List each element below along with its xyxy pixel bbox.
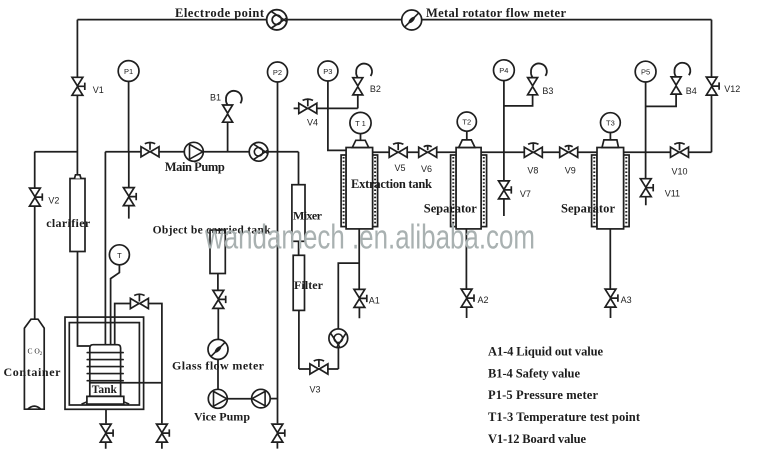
wire object tank to valve: [217, 274, 219, 291]
valve V8: [524, 143, 542, 157]
svg-text:T 1: T 1: [355, 119, 366, 128]
extraction tank cap: [352, 140, 368, 147]
wire vice pump to gear pump: [227, 398, 251, 400]
electrode point fitting: [267, 10, 287, 30]
svg-text:P4: P4: [499, 66, 508, 75]
valve V9: [560, 146, 578, 158]
svg-text:B2: B2: [370, 84, 381, 94]
svg-text:V10: V10: [672, 167, 688, 177]
safety valve B2: [353, 64, 372, 95]
wire B3 drop: [504, 95, 533, 106]
metal rotator flow meter: [402, 10, 422, 30]
wire temperature probe: [111, 265, 120, 317]
wire P3 column to tank inlet: [328, 81, 346, 150]
separator T3 cap: [602, 140, 619, 148]
wire top manifold left: [77, 19, 266, 21]
svg-text:A3: A3: [621, 295, 632, 305]
extraction tank body: [346, 148, 373, 229]
pump gear pump beside vice pump: [252, 389, 271, 408]
wire P5 column: [645, 82, 647, 205]
wire T3 stem: [609, 133, 611, 141]
CO2 container: [24, 319, 44, 409]
separator T2 jacket right: [481, 155, 487, 227]
pump circulating: [329, 329, 348, 348]
wire separator T2 bottom: [465, 229, 467, 318]
svg-text:P2: P2: [273, 68, 282, 77]
clarifier vessel: [70, 175, 85, 252]
wire tank right tube inside bath: [114, 317, 116, 345]
safety valve B3: [528, 63, 547, 94]
valve object tank outlet: [213, 290, 226, 308]
wire bath feed column: [104, 152, 106, 317]
svg-text:V6: V6: [421, 164, 432, 174]
gauge T bath: [109, 245, 129, 265]
svg-text:Electrode point: Electrode point: [175, 6, 265, 20]
wire clarifier to coil: [77, 252, 79, 318]
safety valve B1: [223, 91, 242, 122]
filter vessel: [293, 255, 304, 310]
wire V4 run: [294, 107, 358, 109]
wire P1 column: [128, 81, 130, 218]
valve P1 drain: [123, 188, 136, 206]
svg-text:Container: Container: [4, 365, 62, 379]
separator T2 body: [456, 148, 481, 229]
wire top manifold right: [422, 19, 712, 21]
svg-text:Separator: Separator: [424, 202, 477, 216]
wire top manifold middle: [287, 19, 402, 21]
svg-text:A2: A2: [478, 295, 489, 305]
wire V2 column: [34, 152, 36, 320]
gauge P5: [635, 61, 656, 82]
safety valve B4: [671, 63, 690, 94]
valve V1: [72, 77, 85, 95]
svg-text:P1: P1: [124, 67, 133, 76]
extraction tank jacket left: [341, 155, 346, 227]
gauge P4: [494, 60, 515, 81]
valve bath drain left: [100, 424, 113, 442]
separator T2 cap: [459, 140, 475, 148]
wire right riser: [711, 20, 713, 153]
wire T2 stem: [466, 131, 468, 140]
wire V3 to circulating pump: [337, 348, 339, 369]
svg-text:T1-3 Temperature test point: T1-3 Temperature test point: [488, 410, 641, 424]
wire P2 column: [276, 82, 278, 449]
svg-text:V1-12 Board value: V1-12 Board value: [488, 432, 586, 446]
valve A2: [461, 289, 474, 307]
svg-text:T3: T3: [606, 119, 615, 128]
svg-text:B1-4 Safety value: B1-4 Safety value: [488, 366, 580, 380]
valve V3: [310, 360, 328, 374]
wire temperature probe inside bath: [110, 317, 112, 345]
wire extraction tank bottom: [358, 229, 360, 318]
glass flow meter: [208, 339, 228, 359]
svg-text:V12: V12: [724, 84, 740, 94]
valve A3: [605, 289, 618, 307]
valve A1: [354, 289, 367, 307]
wire B4 drop: [646, 93, 677, 106]
svg-text:V11: V11: [665, 189, 680, 199]
wire B1 drop: [227, 122, 229, 151]
svg-text:Separator: Separator: [561, 201, 615, 215]
gauge P3: [318, 61, 338, 81]
wire filter to V3: [298, 310, 300, 369]
svg-text:Tank: Tank: [92, 384, 118, 396]
wire separator T2 to separator T3: [481, 151, 597, 153]
wire valve to glass flow meter: [217, 309, 219, 340]
svg-text:V4: V4: [307, 117, 318, 127]
separator T3 body: [597, 148, 624, 229]
svg-text:V3: V3: [310, 385, 321, 395]
svg-text:T2: T2: [462, 118, 471, 127]
gauge P2: [268, 62, 288, 82]
svg-text:B3: B3: [542, 86, 553, 96]
pump Vice Pump: [208, 389, 227, 408]
wire bath bottom drain: [105, 409, 107, 449]
valve V4: [299, 99, 317, 113]
separator T3 jacket left: [592, 155, 597, 227]
wire B2 drop: [357, 95, 359, 109]
valve before main pump: [141, 143, 159, 157]
valve V2: [30, 188, 43, 206]
wire P4 column: [503, 81, 505, 216]
wire mixer feed: [298, 152, 300, 185]
svg-text:B4: B4: [686, 86, 697, 96]
svg-text:V2: V2: [48, 196, 59, 206]
svg-text:clarifier: clarifier: [46, 216, 91, 230]
tank pedestal: [82, 396, 130, 404]
tank coil ribs: [87, 353, 123, 381]
svg-text:Main Pump: Main Pump: [165, 160, 225, 174]
gauge T2: [457, 112, 476, 131]
gauge T1: [350, 112, 371, 133]
wire junction to V2 branch: [35, 151, 78, 153]
svg-text:Extraction tank: Extraction tank: [351, 177, 432, 191]
wire feed dip tube inside bath: [104, 317, 106, 345]
wire separator T3 bottom: [609, 229, 611, 318]
svg-text:V1: V1: [93, 85, 104, 95]
wire clarifier feed inside bath: [78, 317, 90, 346]
tank coil body: [90, 345, 121, 397]
svg-text:T: T: [117, 251, 122, 260]
wire extraction tank to separator T2: [373, 151, 456, 153]
svg-text:P5: P5: [641, 68, 650, 77]
separator T3 jacket right: [624, 155, 630, 227]
wire gear pump to P2 column: [270, 398, 277, 400]
valve V6: [419, 146, 437, 158]
valve V7: [499, 181, 512, 199]
wire tank top valve right to drain: [148, 304, 162, 449]
valve V11: [640, 179, 653, 197]
wire V3 run: [299, 368, 339, 370]
svg-text:wandamech .en.alibaba.com: wandamech .en.alibaba.com: [204, 219, 535, 257]
svg-text:A1: A1: [369, 295, 380, 305]
object carried tank: [210, 230, 225, 273]
wire bath drain run: [90, 382, 162, 384]
svg-text:V8: V8: [527, 166, 538, 176]
extraction tank jacket right: [373, 155, 378, 227]
separator T2 jacket left: [451, 155, 457, 227]
svg-text:B1: B1: [210, 92, 221, 102]
wire glass flow meter to vice pump: [217, 359, 219, 389]
valve P2 column bottom: [272, 424, 285, 442]
water bath outer wall: [65, 317, 144, 409]
water bath inner wall: [69, 323, 139, 405]
svg-text:V7: V7: [520, 189, 531, 199]
svg-text:Metal rotator flow meter: Metal rotator flow meter: [426, 6, 566, 20]
svg-text:P1-5 Pressure meter: P1-5 Pressure meter: [488, 388, 598, 402]
mixer vessel: [292, 185, 305, 242]
svg-text:P3: P3: [323, 67, 332, 76]
wire separator T3 to right riser: [624, 151, 712, 153]
svg-text:A1-4 Liquid out value: A1-4 Liquid out value: [488, 345, 603, 359]
valve V10: [671, 143, 689, 157]
svg-text:V9: V9: [565, 166, 576, 176]
svg-text:Glass flow meter: Glass flow meter: [172, 359, 265, 373]
svg-text:Vice Pump: Vice Pump: [194, 410, 250, 424]
gauge P1: [118, 61, 139, 82]
svg-text:Filter: Filter: [294, 278, 324, 292]
wire main pump line: [105, 151, 298, 153]
wire mixer to filter: [298, 241, 300, 255]
pump Main Pump: [184, 142, 203, 161]
wire tank top valve left: [115, 304, 131, 318]
valve bath drain right: [157, 424, 170, 442]
wire circulating pump riser: [338, 263, 359, 329]
pump gear pump on main line: [249, 142, 268, 161]
wire T1 stem: [360, 134, 362, 141]
valve V12: [706, 77, 719, 95]
svg-text:V5: V5: [395, 163, 406, 173]
wire V1 column: [76, 20, 78, 175]
gauge T3: [601, 113, 621, 133]
valve tank top: [130, 294, 148, 308]
valve V5: [389, 143, 407, 157]
